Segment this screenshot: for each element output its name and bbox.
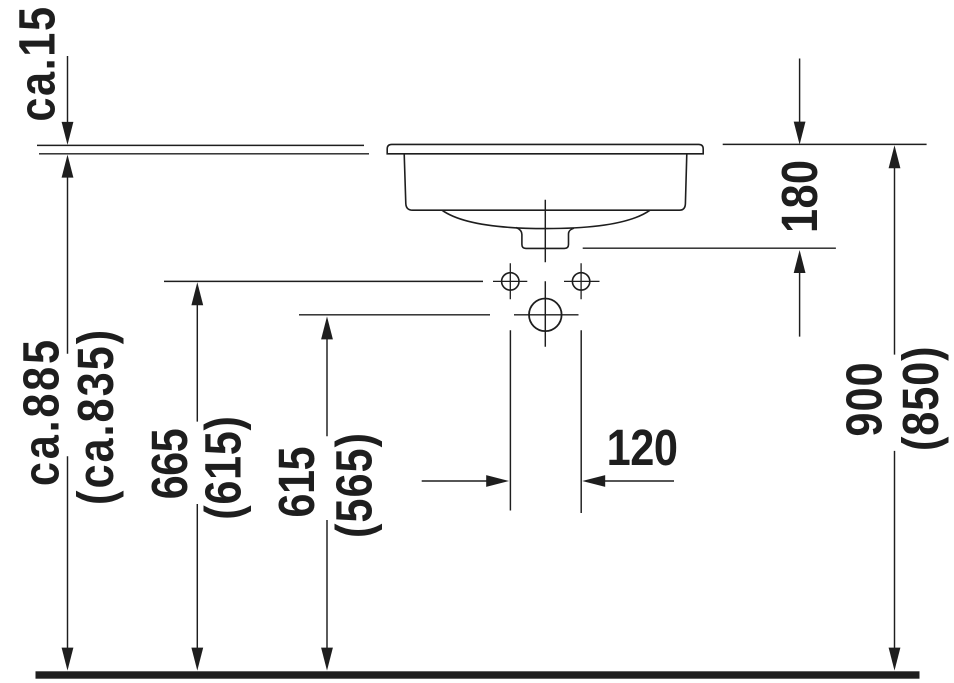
svg-text:ca.885: ca.885 <box>13 340 70 486</box>
svg-text:(615): (615) <box>195 416 252 520</box>
svg-text:(565): (565) <box>326 433 383 538</box>
svg-text:900: 900 <box>836 362 893 436</box>
svg-text:665: 665 <box>142 428 199 499</box>
svg-text:(850): (850) <box>893 346 950 451</box>
svg-text:120: 120 <box>607 420 678 477</box>
svg-text:ca.15: ca.15 <box>9 7 66 122</box>
svg-text:180: 180 <box>772 160 829 233</box>
svg-text:615: 615 <box>269 446 326 517</box>
svg-text:(ca.835): (ca.835) <box>68 330 125 505</box>
